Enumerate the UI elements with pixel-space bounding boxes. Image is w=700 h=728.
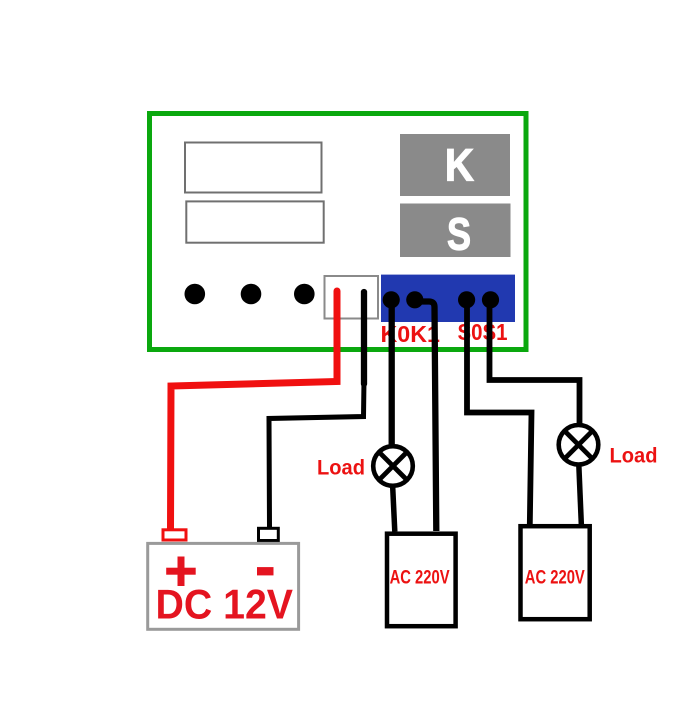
wire black: DC- lower run to battery minus bbox=[269, 380, 364, 527]
svg-text:AC 220V: AC 220V bbox=[390, 568, 450, 589]
indicator dot 2 bbox=[241, 284, 262, 305]
svg-text:K: K bbox=[445, 140, 474, 191]
lamp 2 (Load) circle-X bbox=[559, 425, 599, 465]
relay terminal block (blue) bbox=[381, 275, 515, 322]
svg-text:Load: Load bbox=[610, 445, 658, 468]
terminal S0 bbox=[458, 291, 475, 308]
svg-text:S: S bbox=[447, 209, 471, 260]
lamp 1 (Load) circle-X bbox=[373, 446, 413, 486]
indicator dot 3 bbox=[294, 284, 315, 305]
wire S1 down, right to lamp 2 bbox=[490, 300, 580, 424]
terminal S1 bbox=[482, 291, 499, 308]
battery DC 12V body bbox=[148, 543, 299, 629]
display window 1 bbox=[185, 143, 322, 193]
svg-text:DC 12V: DC 12V bbox=[156, 580, 294, 627]
wire black: DC- from connector (thick upper part) bbox=[361, 292, 367, 384]
battery plus sign bbox=[166, 557, 196, 587]
battery plus terminal tab (red) bbox=[163, 530, 186, 540]
display window 2 bbox=[186, 201, 323, 242]
svg-text:Load: Load bbox=[317, 457, 365, 480]
AC load box 2 bbox=[521, 526, 590, 619]
power connector box bbox=[325, 276, 379, 319]
wire lamp 2 to AC box 2 bbox=[579, 465, 582, 527]
battery minus sign bbox=[257, 567, 274, 575]
terminal K0 bbox=[383, 291, 400, 308]
svg-text:AC 220V: AC 220V bbox=[525, 568, 585, 589]
wire K1 elbow down to AC box 1 bbox=[415, 302, 437, 532]
button K bbox=[400, 134, 510, 196]
wire K0 to lamp 1 bbox=[389, 300, 395, 446]
button S bbox=[400, 204, 511, 258]
terminal K1 bbox=[406, 291, 423, 308]
timer module board outline (green frame) bbox=[150, 114, 527, 350]
wire S0 down, right, down to AC box 2 bbox=[467, 300, 532, 525]
wire lamp 1 to AC box 1 bbox=[393, 485, 395, 532]
battery minus terminal tab (black) bbox=[259, 528, 279, 540]
indicator dot 1 bbox=[185, 284, 206, 305]
AC load box 1 bbox=[387, 534, 456, 627]
wire red: DC+ from connector to battery plus bbox=[171, 291, 338, 529]
